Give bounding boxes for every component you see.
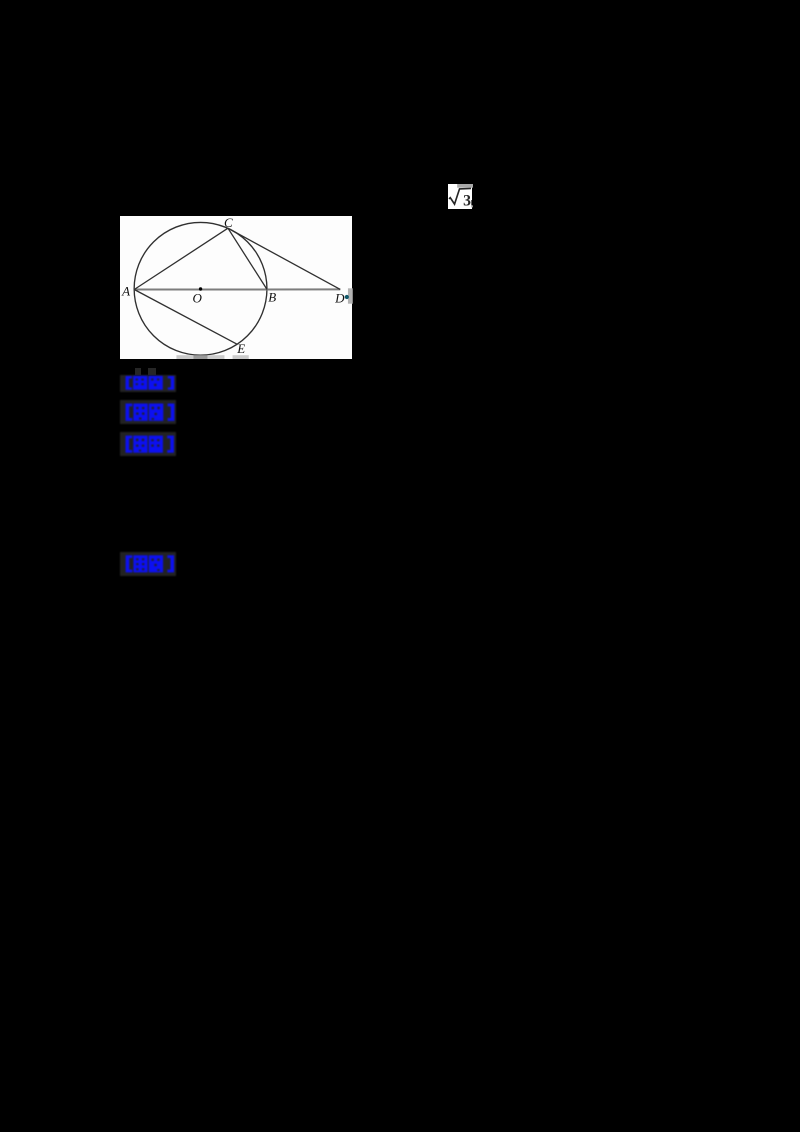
svg-text:A: A (121, 284, 130, 299)
line C-B (227, 228, 266, 289)
equation image sqrt(3) (448, 184, 473, 209)
line C-D (227, 228, 339, 289)
circle O (134, 222, 267, 355)
svg-text:C: C (224, 216, 233, 230)
highlight tab artifacts above first label (135, 368, 142, 375)
line A-C (134, 228, 228, 289)
label box 4 (jieda) (120, 552, 176, 576)
svg-text:E: E (236, 341, 245, 356)
center dot O (198, 287, 201, 290)
geometry figure image (120, 216, 353, 359)
svg-text:B: B (268, 289, 276, 304)
gray smudge strip bottom (176, 355, 248, 359)
gray artifact right of D (347, 288, 352, 303)
label box 3 (fenxi) (120, 432, 176, 456)
line A-D (diameter extended) (134, 288, 340, 290)
teal dot artifact (344, 295, 348, 299)
svg-text:3: 3 (463, 192, 471, 209)
label box 2 (zhuanti) (120, 400, 176, 424)
label box 1 (kaodian) (120, 375, 176, 392)
svg-text:D: D (334, 291, 345, 306)
line A-E (134, 290, 237, 345)
svg-text:O: O (192, 291, 202, 306)
